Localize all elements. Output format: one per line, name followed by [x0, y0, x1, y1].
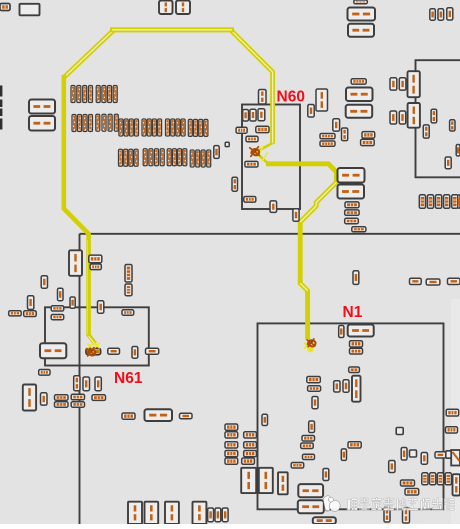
connector edge pads left border	[0, 86, 2, 130]
capacitor above N60	[259, 90, 267, 105]
wire: trace N60 to N1	[266, 164, 336, 340]
pad	[421, 453, 427, 465]
pad	[426, 279, 440, 285]
pad	[343, 380, 349, 392]
component outline top-left	[20, 4, 40, 16]
pad	[334, 381, 340, 392]
pad	[9, 311, 22, 316]
resistor inside N1	[298, 484, 323, 497]
capacitor tall	[408, 103, 420, 128]
resistor on N61 left edge	[40, 343, 66, 358]
pad	[390, 78, 397, 90]
pad right of arrays	[214, 146, 219, 159]
capacitor bank pad 1	[419, 195, 425, 209]
wire: subtle highlight on left trace	[87, 240, 89, 334]
yellow pad at N61 pin	[86, 348, 101, 355]
pad cut at edge	[458, 195, 460, 209]
wire: pair light centerline	[64, 30, 273, 144]
board region boundary horizontal line	[80, 233, 460, 235]
pad	[390, 111, 397, 124]
watermark logo icon	[323, 496, 340, 512]
pad	[320, 141, 335, 146]
capacitor	[125, 284, 132, 296]
pad	[430, 9, 436, 21]
pad inside IC	[445, 157, 451, 169]
resistor array A3	[72, 115, 93, 132]
pad	[307, 377, 321, 383]
pad	[438, 9, 444, 21]
pad	[350, 348, 363, 354]
pad	[333, 119, 340, 131]
resistor R-tr-3	[346, 88, 373, 102]
resistor array A12	[190, 150, 211, 167]
pad	[308, 105, 314, 118]
resistor R-left-1	[29, 100, 55, 114]
connector pin P1	[241, 468, 256, 493]
pad	[222, 508, 228, 522]
pad cut at top	[354, 0, 368, 4]
pad	[302, 436, 315, 442]
capacitor	[352, 376, 361, 402]
connector pin P7	[193, 502, 207, 524]
wire: N60 pin fan	[256, 143, 273, 164]
resistor R-tr-2	[348, 24, 374, 37]
capacitor right edge	[453, 474, 460, 495]
pad	[349, 367, 360, 373]
pin pad	[250, 109, 256, 121]
wire: pair split to N61 pin	[89, 335, 96, 344]
tiny pad	[225, 142, 229, 146]
pad below N60 corner	[293, 209, 299, 222]
pad	[447, 8, 453, 20]
resistor R-mr-2	[338, 185, 365, 199]
capacitor right of N60	[316, 89, 328, 111]
pad	[90, 264, 101, 270]
pad	[361, 139, 375, 145]
board region boundary vertical line	[79, 234, 81, 524]
pad	[122, 413, 135, 419]
node X-marker at N61 pin	[87, 348, 96, 356]
pad	[401, 480, 415, 486]
small square pad	[410, 450, 417, 457]
capacitor bank pad 4	[444, 195, 450, 209]
capacitor bank pad 2	[427, 195, 433, 209]
yellow sparkle stars at N61 pin	[88, 343, 100, 348]
pad	[345, 210, 359, 215]
capacitor bank pad 3	[436, 195, 442, 209]
pad	[301, 443, 314, 449]
resistor array A8	[188, 119, 208, 136]
pad	[98, 301, 104, 314]
pad right of N1	[446, 427, 458, 433]
resistor array A2	[96, 86, 117, 103]
pad	[401, 448, 407, 461]
resistor array A6	[142, 119, 162, 136]
resistor inside N1	[298, 500, 324, 513]
pad bottom	[384, 507, 390, 522]
pad at N60 bottom edge	[270, 201, 277, 213]
pad bottom	[403, 508, 410, 524]
pin pad	[258, 109, 265, 121]
pin pad	[243, 110, 249, 122]
pad	[24, 311, 37, 317]
pad inside N61	[51, 315, 64, 320]
pad	[28, 296, 34, 310]
pad grid	[244, 432, 257, 438]
watermark text 信号完整性之仿与测	[347, 498, 455, 511]
pad	[389, 461, 395, 473]
pad inside N61	[122, 310, 134, 315]
capacitor C-top-1	[159, 1, 173, 15]
resistor R-tr-4	[346, 105, 373, 118]
resistor R-left-2	[29, 116, 55, 131]
connector pin P3	[278, 472, 288, 494]
pad grid	[244, 451, 257, 457]
pad	[55, 402, 69, 408]
IC N1 outline	[258, 323, 444, 509]
yellow pad at N1 pin	[305, 343, 314, 352]
pad below N61	[39, 370, 50, 376]
pad	[345, 218, 359, 223]
wire: left vertical trace to N61	[64, 75, 89, 336]
pad	[180, 413, 193, 418]
pad	[89, 255, 102, 263]
pad grid	[225, 424, 238, 430]
resistor array A9	[119, 149, 139, 166]
subtle lighter board region bottom-right	[451, 299, 460, 524]
pad	[215, 508, 221, 522]
resistor R-mr-1	[338, 168, 365, 183]
pad	[208, 508, 214, 522]
pad at N1 top edge	[339, 326, 344, 338]
capacitor	[23, 385, 36, 411]
connector pin P2	[259, 468, 273, 493]
pad	[71, 394, 84, 400]
pad	[74, 376, 80, 391]
pad	[308, 386, 321, 391]
IC N61 outline	[45, 307, 149, 365]
svg-text:N60: N60	[277, 89, 305, 106]
pad	[405, 489, 419, 496]
pad	[55, 395, 69, 400]
resistor array A4	[96, 114, 119, 131]
pad	[58, 288, 64, 301]
resistor R-tr-1	[348, 8, 376, 21]
pad	[448, 278, 460, 284]
pad left of N60	[232, 177, 238, 191]
capacitor bank2 pad 2	[430, 473, 436, 485]
pad inside N60	[245, 161, 258, 167]
node X-marker at N60 pin	[250, 147, 260, 157]
diode with diagonal	[451, 450, 460, 466]
small square pad	[396, 428, 403, 435]
pad	[342, 128, 348, 141]
pad	[410, 278, 422, 284]
capacitor small	[351, 79, 366, 84]
pad grid	[225, 442, 238, 448]
capacitor bank2 pad 3	[437, 473, 443, 485]
pad above N1	[353, 271, 359, 285]
connector pin P6	[165, 502, 179, 524]
pad inside N61	[108, 348, 120, 354]
pad grid	[225, 458, 238, 464]
capacitor above N61	[69, 250, 82, 275]
pad	[423, 125, 429, 138]
pad on N60 left edge	[236, 127, 247, 133]
resistor array A1	[71, 86, 93, 103]
resistor R-mb	[145, 409, 173, 421]
pad right of N1	[446, 409, 459, 416]
pad	[303, 454, 315, 459]
pad	[435, 452, 446, 458]
pad inside N61	[132, 347, 138, 359]
pad	[70, 297, 75, 308]
pad	[341, 449, 346, 461]
pad	[320, 134, 335, 139]
resistor array A10	[143, 149, 164, 166]
pad	[323, 469, 329, 481]
capacitor bank2 pad 1	[422, 473, 428, 485]
pad inside N60	[244, 197, 256, 203]
wire: diagonal pair centerline N60-N1	[300, 182, 336, 222]
pad on N61 right edge	[146, 348, 159, 354]
pad	[348, 442, 361, 448]
resistor at bottom edge	[313, 517, 336, 524]
resistor inside N1 top	[348, 325, 374, 337]
connector pin P5	[145, 502, 159, 524]
pad	[71, 402, 84, 408]
pad on N61 top edge	[51, 306, 64, 311]
pad grid	[242, 458, 255, 464]
pad top-left edge	[0, 4, 10, 11]
svg-text:N61: N61	[114, 370, 143, 387]
pad	[83, 377, 90, 391]
resistor array A5	[119, 119, 139, 136]
pad	[450, 120, 455, 131]
pad	[312, 397, 318, 409]
pad	[362, 132, 375, 139]
small square pad	[446, 451, 453, 458]
pad grid	[225, 432, 238, 438]
pad	[352, 227, 366, 232]
IC N60 outline	[242, 105, 300, 210]
pad	[350, 341, 363, 347]
connector pin P4	[128, 502, 142, 524]
pad inside N60	[256, 126, 269, 132]
pad	[262, 414, 268, 425]
pad	[95, 377, 101, 391]
svg-text:N1: N1	[343, 304, 363, 321]
pad	[41, 276, 47, 289]
pad grid	[225, 451, 238, 457]
wire: differential pair top loop N61-N60	[64, 30, 273, 144]
pad	[431, 109, 437, 123]
pad grid	[244, 442, 257, 448]
capacitor bank pad 5	[452, 195, 458, 209]
capacitor C-top-2	[176, 1, 190, 15]
node X-marker at N1 pin	[307, 339, 315, 347]
pad	[345, 202, 359, 208]
pad inside N60	[246, 136, 258, 142]
pad	[309, 421, 315, 433]
pad	[291, 463, 304, 469]
pad	[399, 111, 405, 124]
pad at right edge	[456, 145, 460, 157]
capacitor	[125, 265, 132, 283]
pad	[399, 78, 406, 90]
IC U-top-right outline	[416, 60, 460, 177]
resistor array A7	[166, 119, 186, 136]
pad	[41, 393, 48, 405]
pad	[92, 395, 106, 401]
resistor array A11	[167, 149, 187, 166]
capacitor bank2 pad 4	[445, 473, 451, 485]
capacitor tall	[408, 71, 420, 97]
